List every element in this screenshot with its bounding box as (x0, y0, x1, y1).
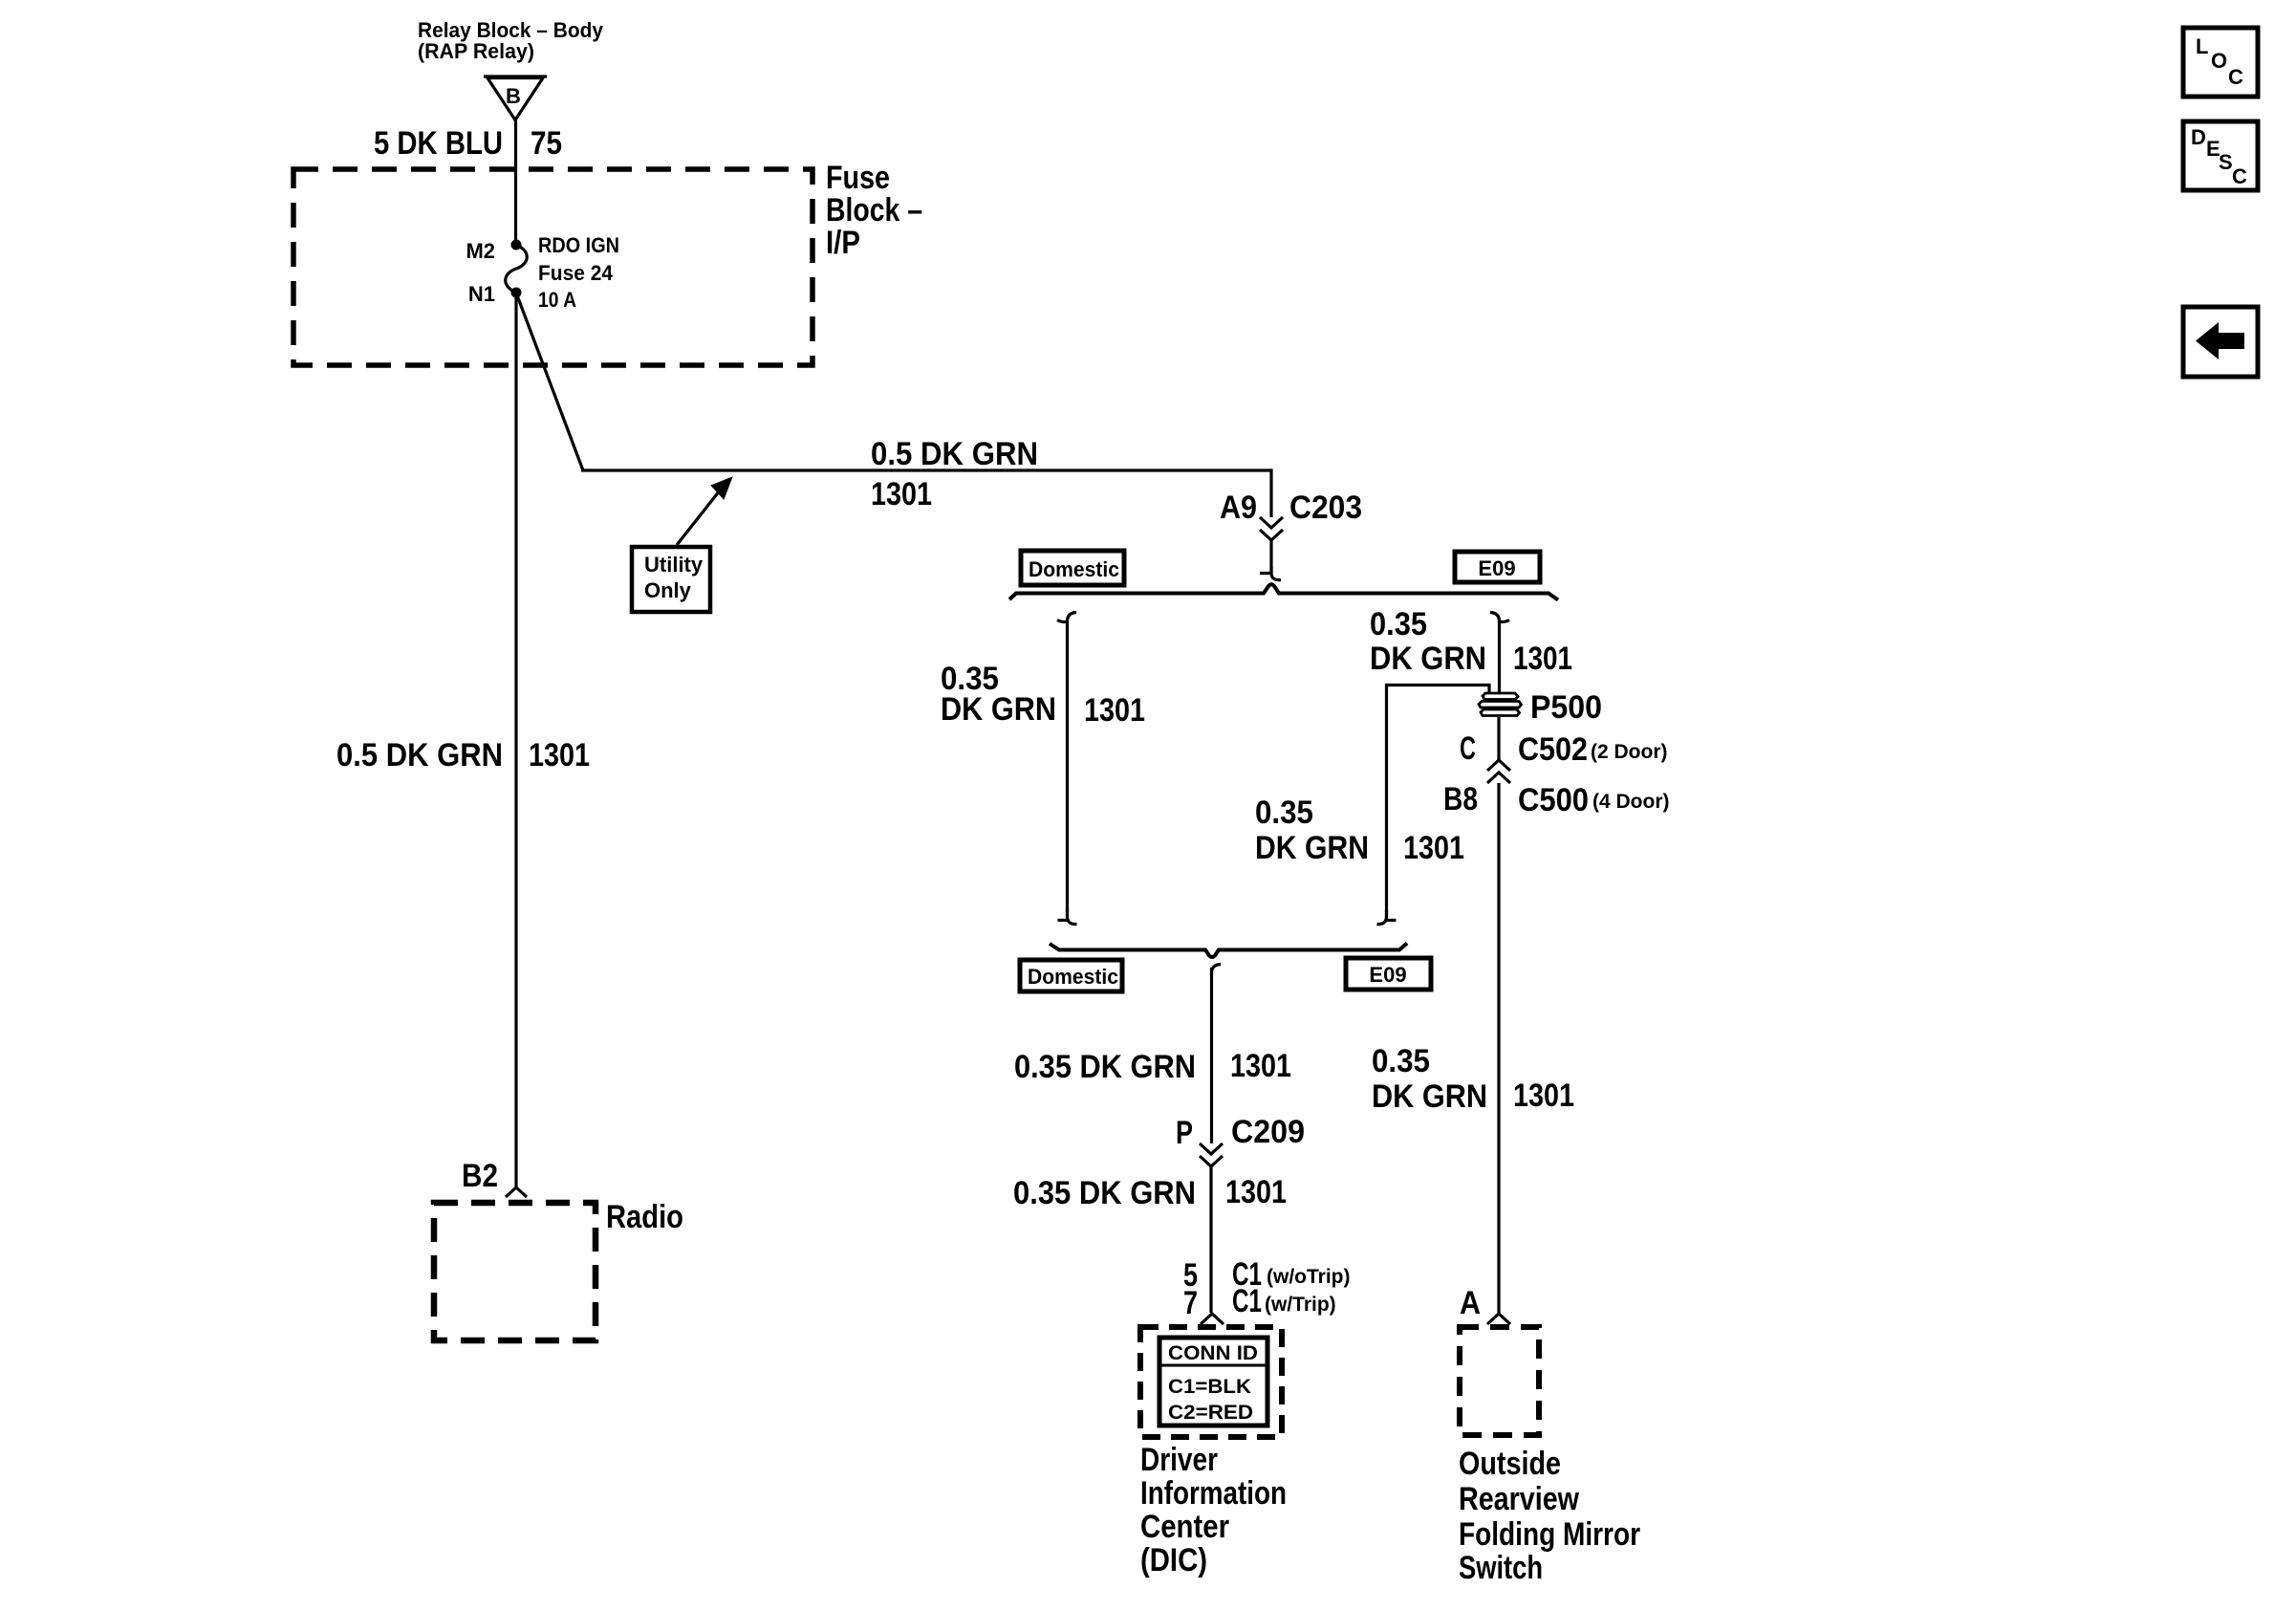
wire branch from N1 to horizontal run (517, 295, 583, 470)
svg-text:(w/oTrip): (w/oTrip) (1267, 1266, 1351, 1288)
svg-text:1301: 1301 (1403, 830, 1464, 866)
label Relay Block - Body (RAP Relay) (418, 18, 604, 63)
splice P500 (1479, 689, 1602, 726)
svg-text:Fuse: Fuse (826, 160, 890, 196)
svg-text:10 A: 10 A (538, 288, 576, 312)
svg-text:C203: C203 (1289, 490, 1362, 526)
radio dashed box (434, 1203, 596, 1340)
svg-text:C: C (1460, 730, 1476, 767)
connector chevron into mirror switch (1487, 1314, 1510, 1324)
splice bus bar 1 (1009, 584, 1558, 599)
svg-text:Fuse 24: Fuse 24 (538, 261, 614, 285)
wire horizontal 0.5 DK GRN 1301 run to C203 (581, 470, 1271, 517)
wire elbow from P500 area down to bus 2 (1377, 686, 1490, 925)
label 0.35 DK GRN 1301 (DIC run lower) (1013, 1174, 1287, 1211)
connector C209 chevrons (1200, 1143, 1223, 1166)
svg-text:Utility: Utility (644, 553, 704, 577)
svg-text:M2: M2 (466, 239, 495, 263)
tag box Domestic (bus 1) (1021, 551, 1124, 585)
svg-text:5 DK BLU: 5 DK BLU (374, 125, 503, 162)
svg-text:A9: A9 (1220, 490, 1257, 526)
CONN ID table (1159, 1338, 1267, 1426)
svg-text:C: C (2228, 65, 2243, 89)
svg-text:RDO IGN: RDO IGN (538, 233, 619, 257)
svg-text:B: B (506, 84, 521, 108)
svg-text:75: 75 (531, 125, 562, 162)
svg-text:I/P: I/P (826, 225, 860, 261)
wire C500 down to mirror switch (1497, 783, 1500, 1313)
svg-text:Only: Only (644, 578, 692, 602)
pins 5 / 7 and connectors C1 (w/oTrip) C1 (w/Trip) (1183, 1256, 1351, 1321)
svg-text:CONN ID: CONN ID (1168, 1342, 1258, 1364)
svg-text:C1: C1 (1232, 1283, 1262, 1319)
DIC dashed box (1140, 1327, 1282, 1437)
connector C502/C500 chevrons (1487, 760, 1510, 783)
nav box DESC (2183, 121, 2258, 190)
wire P500 to connector C502/C500 (1497, 717, 1500, 760)
wire bus 2 to connector C209 (1212, 965, 1222, 1144)
label 0.5 DK GRN 1301 (horizontal run) (871, 436, 1038, 512)
splice bus bar 2 (1050, 944, 1407, 958)
svg-text:Domestic: Domestic (1028, 965, 1118, 989)
svg-text:C500: C500 (1518, 782, 1589, 818)
svg-text:Center: Center (1140, 1509, 1229, 1545)
svg-text:0.35: 0.35 (1370, 606, 1427, 642)
svg-text:D: D (2191, 125, 2206, 149)
svg-text:DK GRN: DK GRN (1255, 830, 1369, 866)
label RDO IGN Fuse 24 10 A (538, 233, 619, 312)
svg-text:Switch: Switch (1459, 1550, 1543, 1586)
svg-text:Block –: Block – (826, 192, 922, 229)
svg-text:O: O (2211, 49, 2227, 73)
svg-text:(4 Door): (4 Door) (1592, 791, 1670, 813)
svg-text:N1: N1 (468, 282, 495, 306)
svg-text:C: C (2232, 164, 2247, 188)
svg-text:(DIC): (DIC) (1140, 1542, 1207, 1578)
label 0.35 DK GRN 1301 (DIC run upper) (1014, 1048, 1291, 1085)
label 0.35 DK GRN 1301 (elbow drop) (1255, 795, 1464, 866)
svg-text:P500: P500 (1530, 689, 1602, 726)
fuse block I/P dashed box (293, 169, 812, 365)
svg-text:0.5 DK GRN: 0.5 DK GRN (871, 436, 1038, 472)
pin A9 and connector C203 (1220, 490, 1362, 526)
svg-text:DK GRN: DK GRN (1372, 1078, 1487, 1115)
mirror switch dashed box (1460, 1327, 1539, 1435)
svg-text:L: L (2196, 34, 2208, 58)
label Driver Information Center (DIC) (1140, 1442, 1287, 1578)
svg-text:0.35: 0.35 (1372, 1043, 1430, 1079)
pin C / connector C502 (2 Door) (1460, 730, 1668, 768)
svg-text:Driver: Driver (1140, 1442, 1218, 1478)
power triangle B (RAP Relay feed) (484, 76, 547, 120)
tag box E09 (bus 1) (1455, 552, 1540, 582)
svg-text:B8: B8 (1443, 781, 1478, 817)
svg-text:1301: 1301 (529, 737, 590, 773)
pin P / connector C209 (1176, 1114, 1305, 1151)
svg-text:0.35 DK GRN: 0.35 DK GRN (1014, 1049, 1196, 1085)
svg-text:C209: C209 (1231, 1114, 1305, 1150)
svg-text:B2: B2 (462, 1158, 498, 1194)
wire left drop from bus 1 to bus 2 (1057, 613, 1077, 925)
svg-text:7: 7 (1183, 1285, 1198, 1321)
label Outside Rearview Folding Mirror Switch (1459, 1446, 1640, 1586)
nav box back arrow (2183, 307, 2258, 377)
wire right drop from bus 1 to P500 (1490, 613, 1509, 695)
svg-text:Domestic: Domestic (1029, 557, 1119, 581)
pin B8 / connector C500 (4 Door) (1443, 781, 1670, 818)
svg-text:(w/Trip): (w/Trip) (1265, 1294, 1336, 1316)
svg-text:C502: C502 (1518, 731, 1588, 768)
wire 0.5 DK GRN from N1 down to radio (514, 293, 517, 1186)
label 0.35 DK GRN 1301 (mirror switch run) (1372, 1043, 1574, 1115)
svg-text:(RAP Relay): (RAP Relay) (418, 39, 534, 63)
svg-text:P: P (1176, 1115, 1193, 1151)
svg-text:0.35 DK GRN: 0.35 DK GRN (1013, 1175, 1196, 1211)
svg-text:S: S (2219, 150, 2233, 174)
svg-text:E09: E09 (1369, 963, 1406, 987)
connector chevron into DIC (1201, 1314, 1224, 1324)
connector C203 chevrons (1260, 517, 1283, 540)
svg-text:1301: 1301 (871, 476, 932, 512)
svg-text:Outside: Outside (1459, 1446, 1561, 1482)
fuse RDO IGN Fuse 24 10A (terminals M2, N1) (506, 240, 528, 298)
svg-text:C1=BLK: C1=BLK (1168, 1376, 1251, 1398)
wire 5 DK BLU from triangle B to fuse M2 (514, 120, 517, 241)
svg-text:0.35: 0.35 (1255, 795, 1313, 831)
nav box LOC (2183, 28, 2258, 97)
svg-text:Rearview: Rearview (1459, 1481, 1579, 1517)
svg-text:Radio: Radio (606, 1199, 683, 1235)
svg-text:A: A (1460, 1285, 1481, 1321)
svg-text:C2=RED: C2=RED (1168, 1402, 1253, 1424)
label 0.35 DK GRN 1301 (right drop) (1370, 606, 1572, 677)
connector chevron into radio (506, 1187, 527, 1197)
svg-text:E09: E09 (1478, 556, 1515, 580)
svg-text:DK GRN: DK GRN (941, 691, 1056, 728)
svg-text:1301: 1301 (1230, 1048, 1291, 1084)
svg-text:1301: 1301 (1084, 692, 1145, 729)
label 0.35 DK GRN 1301 (left drop) (941, 661, 1145, 729)
utility only callout box with arrow (632, 478, 731, 612)
wire C203 to splice bus 1 (1260, 540, 1281, 580)
label 0.5 DK GRN 1301 (left vertical run) (336, 737, 590, 773)
svg-text:1301: 1301 (1225, 1174, 1287, 1210)
label 5 DK BLU 75 (374, 125, 562, 162)
svg-text:1301: 1301 (1513, 641, 1572, 677)
svg-text:0.5 DK GRN: 0.5 DK GRN (336, 737, 503, 773)
tag box Domestic (bus 2) (1020, 960, 1122, 991)
svg-text:(2 Door): (2 Door) (1591, 741, 1668, 763)
label Fuse Block - I/P (826, 160, 922, 261)
svg-text:1301: 1301 (1513, 1078, 1574, 1114)
svg-text:Folding Mirror: Folding Mirror (1459, 1516, 1640, 1553)
wire C209 to DIC (1209, 1166, 1212, 1313)
svg-text:Information: Information (1140, 1475, 1287, 1512)
svg-text:DK GRN: DK GRN (1370, 641, 1486, 677)
tag box E09 (bus 2) (1346, 958, 1431, 990)
